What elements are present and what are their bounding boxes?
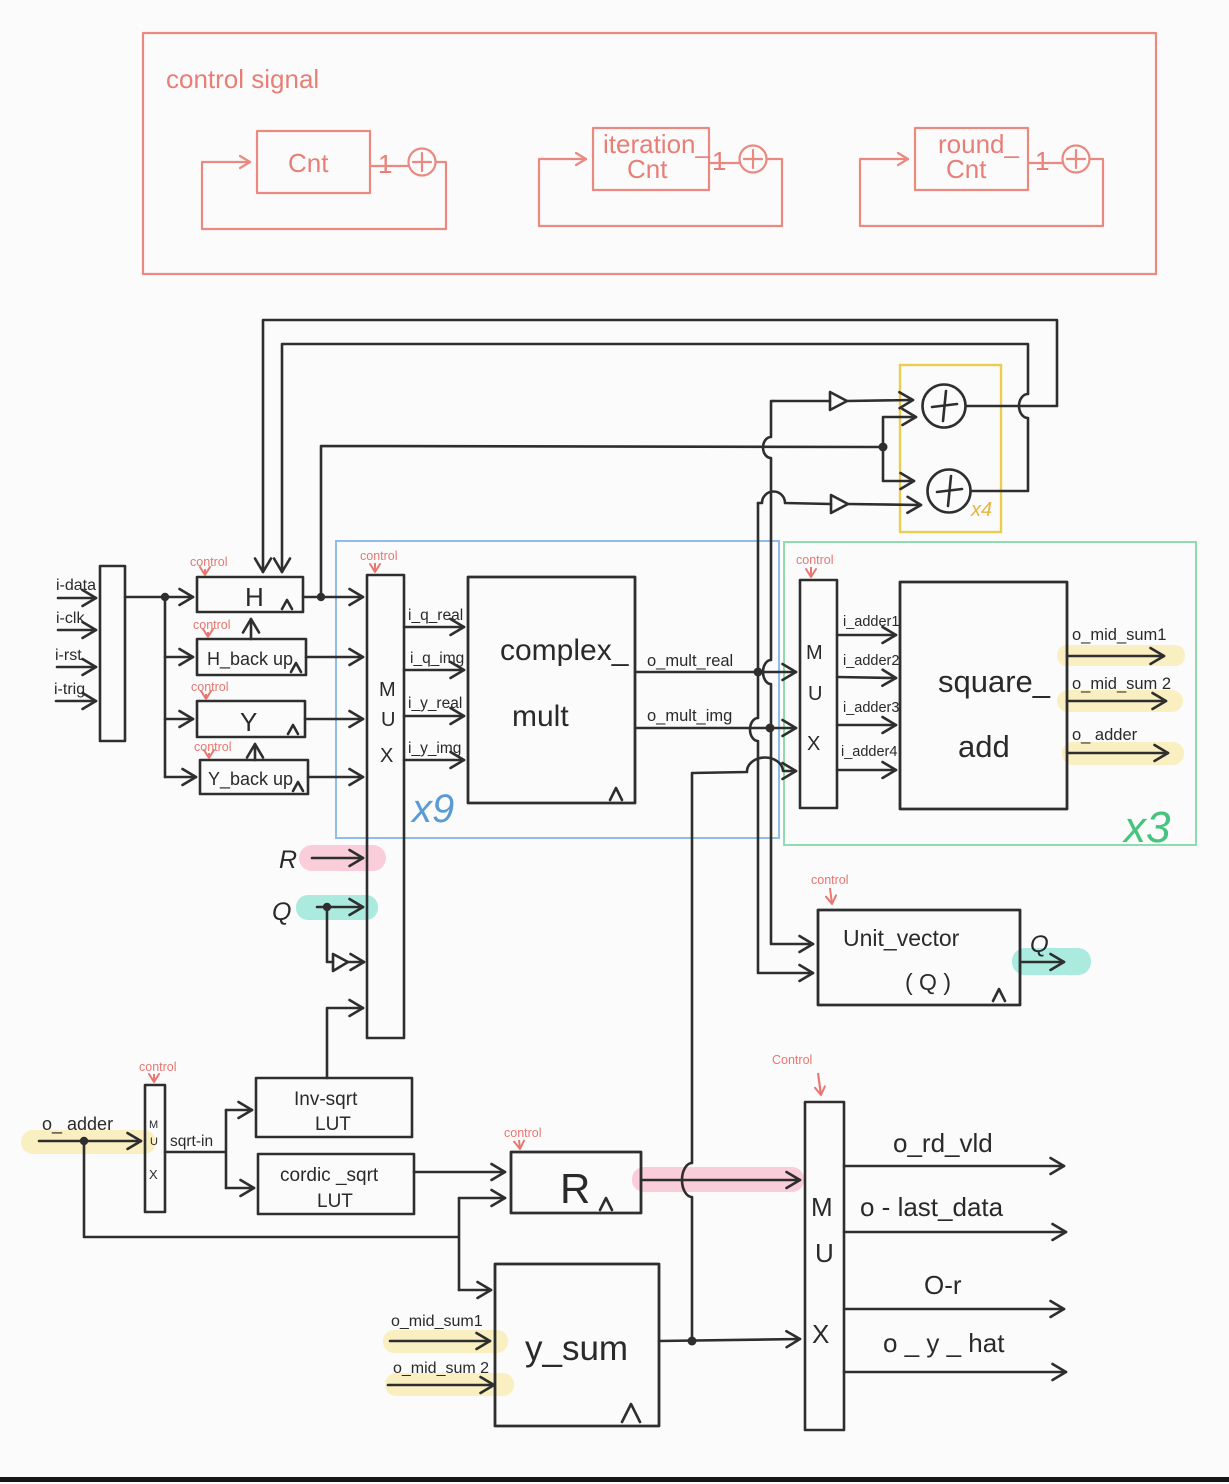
wire H to MUX1 with junction [303, 593, 363, 601]
wire o_adder down to R and y_sum [84, 1141, 459, 1290]
signal label o_adder output [1067, 726, 1168, 753]
control label for Y_back_up [194, 740, 232, 758]
svg-text:y_sum: y_sum [525, 1329, 628, 1368]
svg-text:Control: Control [772, 1053, 812, 1067]
signal label o_mult_real [635, 652, 796, 677]
svg-text:X: X [380, 745, 393, 767]
svg-text:i_y_real: i_y_real [408, 695, 462, 712]
signal label o_mult_img [635, 707, 796, 733]
output label o_rd_vld [844, 1128, 1064, 1166]
svg-text:control: control [193, 618, 231, 632]
output label o_y_hat [844, 1328, 1066, 1372]
highlight pill o_adder input [21, 1130, 156, 1154]
svg-text:control signal: control signal [166, 64, 319, 94]
wire o_mult_img branch to top adder via buffer [773, 392, 913, 410]
wire Y_back_up to Y [254, 744, 257, 760]
wire inv_sqrt LUT to MUX1 [327, 1008, 363, 1078]
svg-text:i_q_real: i_q_real [408, 607, 463, 624]
Q feedback input to MUX1 [272, 898, 363, 926]
svg-text:square_: square_ [938, 664, 1051, 699]
svg-text:U: U [381, 709, 395, 731]
highlight pill Q output [1012, 948, 1091, 975]
wire into cordic_sqrt LUT [226, 1187, 254, 1190]
svg-text:Q: Q [272, 898, 291, 926]
MUX4 [805, 1102, 844, 1430]
svg-text:control: control [139, 1060, 177, 1074]
x3 replication box (green) [784, 542, 1196, 852]
bottom frame bar [0, 1477, 1229, 1482]
svg-text:U: U [815, 1238, 834, 1268]
adder +1 for round_Cnt [1035, 146, 1090, 177]
feedback loop iteration_Cnt [539, 159, 782, 226]
highlight pill o_mid_sum1 output [1057, 645, 1185, 666]
R feedback input to MUX1 [279, 846, 363, 874]
input label i_trig [54, 681, 96, 701]
svg-text:1 -: 1 - [712, 146, 742, 176]
wire H_back_up to MUX1 [306, 656, 363, 659]
wire cordic LUT to R [414, 1171, 505, 1174]
svg-text:Cnt: Cnt [288, 148, 329, 178]
signal label i_adder2 [837, 653, 899, 678]
register Y_back_up [200, 760, 308, 794]
register R [511, 1152, 641, 1213]
svg-text:cordic _sqrt: cordic _sqrt [280, 1165, 379, 1186]
vertical wire o_mult_real to bottom-adder and unit_vector [750, 672, 813, 973]
svg-text:X: X [149, 1167, 158, 1182]
svg-text:control: control [811, 873, 849, 887]
counter iteration_Cnt [593, 128, 710, 190]
svg-text:o_mid_sum1: o_mid_sum1 [1072, 626, 1166, 644]
signal label i_adder3 [837, 700, 899, 725]
svg-text:Inv-sqrt: Inv-sqrt [294, 1089, 358, 1110]
svg-text:control: control [194, 740, 232, 754]
svg-text:o_mid_sum 2: o_mid_sum 2 [1072, 675, 1171, 693]
MUX3 [145, 1085, 165, 1212]
svg-text:H: H [245, 582, 264, 612]
signal label i_y_img [404, 740, 464, 760]
feedback wire top adder to H [263, 320, 1057, 572]
highlight pill o_adder output [1062, 742, 1184, 765]
signal label o_mid_sum1 output [1067, 626, 1166, 656]
register H_back_up [197, 639, 306, 675]
block inv_sqrt LUT [256, 1078, 412, 1137]
highlight pill o_mid_sum1 input [383, 1330, 508, 1353]
svg-text:X: X [807, 733, 820, 755]
svg-text:o_ adder: o_ adder [1072, 726, 1138, 744]
svg-text:Y_back up: Y_back up [208, 769, 293, 790]
control label for MUX1 [360, 549, 398, 572]
register Y [197, 701, 305, 737]
wire into Y_back_up [165, 776, 196, 779]
block unit_vector [818, 910, 1020, 1005]
highlight pill Q input [296, 895, 378, 920]
input label i_data [56, 577, 96, 598]
signal label i_q_img [404, 650, 464, 670]
svg-text:i_adder2: i_adder2 [843, 653, 899, 669]
svg-text:( Q ): ( Q ) [905, 969, 951, 995]
svg-text:Q: Q [1030, 931, 1049, 958]
svg-text:R: R [560, 1165, 590, 1212]
svg-text:Unit_vector: Unit_vector [843, 925, 960, 951]
svg-text:R: R [279, 846, 297, 874]
wire H_back_up to H [250, 619, 253, 639]
x9 replication box (blue) [336, 541, 779, 838]
wire into H [165, 596, 193, 599]
feedback loop Cnt [202, 162, 446, 229]
svg-text:o_ adder: o_ adder [42, 1114, 113, 1135]
svg-text:Cnt: Cnt [627, 154, 668, 184]
highlight pill R output [632, 1167, 804, 1192]
control label for H [190, 555, 228, 575]
signal label o_mid_sum2 output [1067, 675, 1171, 701]
block square_add [900, 582, 1067, 809]
control label for MUX3 [139, 1060, 177, 1082]
output label o_last_data [844, 1192, 1066, 1232]
svg-text:U: U [150, 1136, 158, 1148]
svg-text:o_mult_real: o_mult_real [647, 652, 733, 670]
svg-text:i_adder1: i_adder1 [843, 614, 899, 630]
svg-text:i_adder3: i_adder3 [843, 700, 899, 716]
highlight pill R input [299, 845, 386, 871]
control label for MUX2 [796, 553, 834, 577]
control label for Y [191, 680, 229, 699]
wire Y_back_up to MUX1 [308, 776, 363, 779]
control signal section frame [143, 33, 1156, 274]
svg-text:i-rst: i-rst [55, 647, 82, 664]
svg-text:Cnt: Cnt [946, 154, 987, 184]
input collector block [100, 566, 125, 741]
MUX1 [367, 575, 404, 1038]
counter round_Cnt [915, 128, 1028, 190]
control label for R [504, 1126, 542, 1149]
wire H output up to adders feed [321, 417, 916, 597]
signal label i_y_real [404, 695, 464, 716]
adder +1 for iteration_Cnt [712, 146, 767, 177]
wire into R lower input [459, 1197, 505, 1200]
input label o_adder bottom left [39, 1114, 141, 1145]
svg-text:o _ y _ hat: o _ y _ hat [883, 1328, 1005, 1358]
output Q of unit_vector [1020, 931, 1064, 962]
signal label sqrt_in [165, 1110, 226, 1188]
block y_sum [495, 1264, 659, 1426]
svg-text:i_q_img: i_q_img [410, 650, 464, 667]
svg-text:add: add [958, 729, 1010, 764]
wire o_mult_real branch to bottom adder via buffer [758, 492, 921, 672]
svg-text:M: M [811, 1192, 833, 1222]
input label i_clk [56, 610, 96, 630]
vertical wire y_sum to MUX2 i_adder4 [682, 757, 796, 1345]
svg-text:M: M [149, 1119, 158, 1131]
svg-text:x4: x4 [970, 499, 992, 521]
buffer triangle on Q branch [327, 907, 364, 971]
svg-text:control: control [796, 553, 834, 567]
svg-text:H_back up: H_back up [207, 649, 293, 670]
control label for H_back_up [193, 618, 231, 637]
adder circle top [923, 385, 966, 428]
svg-text:o_rd_vld: o_rd_vld [893, 1128, 993, 1158]
svg-text:1 -: 1 - [378, 149, 408, 179]
svg-text:i-trig: i-trig [54, 681, 85, 698]
adder +1 for Cnt [378, 149, 436, 180]
svg-text:mult: mult [512, 700, 569, 733]
wire y_sum output to MUX4 [659, 1339, 800, 1341]
input label o_mid_sum2 [388, 1360, 494, 1385]
block complex_mult [468, 577, 635, 803]
wire into H_back_up [165, 656, 193, 659]
control label for unit_vector [811, 873, 849, 904]
svg-text:o_mid_sum 2: o_mid_sum 2 [393, 1360, 489, 1377]
output label o_r [844, 1270, 1064, 1309]
block cordic_sqrt LUT [258, 1154, 414, 1214]
svg-text:control: control [360, 549, 398, 563]
counter Cnt [257, 131, 370, 193]
MUX2 [800, 580, 837, 808]
svg-text:o - last_data: o - last_data [860, 1192, 1004, 1222]
wire Y to MUX1 [305, 718, 363, 721]
svg-text:M: M [806, 642, 823, 664]
svg-text:x3: x3 [1122, 803, 1171, 852]
svg-text:o_mid_sum1: o_mid_sum1 [391, 1313, 483, 1330]
wire collector to register fan [125, 597, 165, 777]
svg-text:M: M [379, 679, 396, 701]
signal label i_adder1 [837, 614, 899, 635]
svg-text:control: control [504, 1126, 542, 1140]
junction fan [161, 593, 169, 601]
svg-text:LUT: LUT [315, 1114, 351, 1135]
wire into y_sum upper input [459, 1289, 491, 1292]
svg-text:complex_: complex_ [500, 634, 630, 667]
svg-text:sqrt-in: sqrt-in [170, 1133, 213, 1150]
svg-text:o_mult_img: o_mult_img [647, 707, 732, 725]
vertical wire o_mult_img to top-adder and unit_vector [763, 401, 813, 944]
highlight pill o_mid_sum2 output [1057, 690, 1183, 712]
svg-text:LUT: LUT [317, 1191, 353, 1212]
svg-text:Y: Y [240, 707, 257, 737]
wire into Y [165, 718, 193, 721]
highlight pill o_mid_sum2 input [385, 1373, 514, 1396]
svg-text:O-r: O-r [924, 1270, 962, 1300]
svg-text:U: U [808, 683, 822, 705]
svg-text:i_y_img: i_y_img [408, 740, 461, 757]
feedback wire bottom adder to H [282, 344, 1028, 572]
x4 replication box (yellow) [900, 365, 1001, 532]
wire into inv_sqrt LUT [226, 1109, 252, 1112]
input label o_mid_sum1 [390, 1313, 490, 1341]
adder circle bottom [928, 470, 971, 513]
register H [197, 577, 303, 612]
control label for MUX4 [772, 1053, 821, 1095]
signal label i_adder4 [837, 744, 897, 770]
svg-text:control: control [190, 555, 228, 569]
signal label i_q_real [404, 607, 464, 627]
svg-text:x9: x9 [410, 787, 454, 831]
svg-text:X: X [812, 1319, 829, 1349]
svg-text:control: control [191, 680, 229, 694]
input label i_rst [55, 647, 96, 667]
svg-text:i_adder4: i_adder4 [841, 744, 897, 760]
wire R to MUX4 (pink highlighted) [641, 1179, 800, 1182]
svg-text:i-data: i-data [56, 577, 96, 594]
svg-text:i-clk: i-clk [56, 610, 85, 627]
svg-text:1 -: 1 - [1035, 146, 1065, 176]
feedback loop round_Cnt [860, 159, 1103, 226]
